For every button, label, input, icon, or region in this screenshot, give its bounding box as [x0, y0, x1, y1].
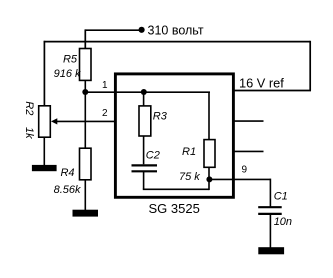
value 916 k — [54, 68, 81, 80]
label R4 — [60, 167, 74, 179]
label SG 3525 — [149, 201, 200, 216]
label R1 — [182, 146, 196, 158]
svg-text:9: 9 — [242, 165, 248, 176]
wire Vref right vertical — [309, 41, 311, 91]
value 1k rotated — [23, 127, 35, 139]
value 10n — [274, 216, 292, 228]
svg-text:2: 2 — [102, 108, 108, 119]
wire R5 bottom to R4 top — [84, 80, 86, 148]
node junction dot pin 9 — [206, 176, 212, 182]
svg-text:16 V ref: 16 V ref — [239, 76, 284, 91]
wire C1 bottom — [269, 214, 271, 248]
value 75 k — [179, 171, 200, 183]
wire Vref top horizontal — [44, 41, 311, 43]
wire R3 bottom to C2 — [143, 136, 145, 164]
svg-text:75 k: 75 k — [179, 171, 200, 183]
wire R3 top — [143, 92, 145, 106]
svg-text:310 вольт: 310 вольт — [148, 24, 204, 38]
resistor R3 — [139, 106, 151, 136]
node junction dot R3 top — [141, 89, 147, 95]
node junction dot R5/pin1 — [82, 89, 88, 95]
resistor R5 — [80, 49, 92, 81]
wire pin 16 horizontal — [233, 90, 311, 92]
pin stub right 2 — [233, 150, 264, 152]
svg-text:1: 1 — [102, 80, 108, 91]
svg-text:SG 3525: SG 3525 — [149, 201, 200, 216]
wiper arrow of R2 — [51, 118, 114, 124]
resistor R1 — [204, 140, 215, 168]
svg-text:R4: R4 — [60, 167, 74, 179]
wire left vertical to R2 — [43, 41, 45, 106]
label R2 rotated — [23, 101, 35, 115]
ground bar below R2 — [32, 165, 57, 171]
ground bar below C1 — [258, 247, 284, 254]
wire R1 bottom — [208, 167, 210, 179]
svg-text:1k: 1k — [23, 127, 35, 139]
label C2 — [146, 150, 160, 162]
wire R5 top vertical — [84, 29, 86, 48]
wire R2 bottom — [43, 137, 45, 165]
wire R1 top vertical — [208, 92, 210, 139]
svg-text:916 k: 916 k — [54, 68, 81, 80]
svg-text:10n: 10n — [274, 216, 292, 228]
svg-text:C1: C1 — [274, 191, 288, 203]
wire C2 bottom path — [143, 171, 209, 190]
value 8.56k — [54, 184, 81, 196]
wire pin 9 horizontal — [209, 178, 270, 180]
wire R4 bottom — [84, 180, 86, 211]
label R5 — [63, 54, 78, 66]
pin label 1 — [102, 80, 108, 91]
resistor R4 — [80, 148, 92, 180]
pin stub right 1 — [233, 120, 264, 122]
pin label 16 V ref — [239, 76, 284, 91]
wire pin 1 horizontal — [85, 91, 210, 93]
capacitor C2 — [132, 165, 158, 171]
potentiometer R2 — [39, 106, 51, 137]
node 310V terminal dot — [139, 27, 145, 33]
svg-text:R1: R1 — [182, 146, 196, 158]
wire 310V rail horizontal — [85, 29, 140, 31]
label R3 — [153, 110, 168, 122]
node label 310 вольт — [148, 24, 204, 38]
svg-text:R3: R3 — [153, 110, 168, 122]
pin label 9 — [242, 165, 248, 176]
pin label 2 — [102, 108, 108, 119]
ground bar below R4 — [73, 210, 99, 217]
IC box SG3525 — [115, 74, 233, 197]
capacitor C1 — [258, 207, 282, 214]
label C1 — [274, 191, 288, 203]
svg-text:8.56k: 8.56k — [54, 184, 81, 196]
wire C1 top vertical — [269, 179, 271, 208]
svg-text:C2: C2 — [146, 150, 160, 162]
svg-text:R2: R2 — [23, 101, 35, 115]
svg-text:R5: R5 — [63, 54, 78, 66]
